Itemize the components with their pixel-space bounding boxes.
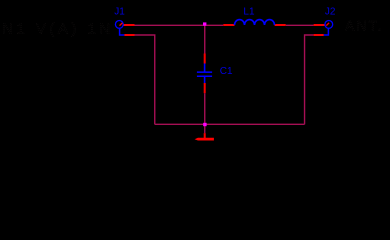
svg-text:ANT.: ANT.	[345, 18, 383, 34]
wire: bottom junction to ground	[204, 124, 206, 133]
pin: J2 pin1 (red stub)	[314, 24, 325, 26]
pin: L1 left pin	[223, 24, 234, 26]
capacitor C1 bottom plate	[197, 76, 212, 78]
pin: C1 top pin	[204, 54, 206, 64]
J2 pin slash	[326, 23, 329, 26]
J1 shield lead (blue L)	[120, 28, 125, 35]
wire: J1 shield net to left corner	[135, 35, 155, 124]
wire: top net junction to L1	[206, 24, 223, 26]
wire: top net L1 to J2	[286, 24, 314, 26]
connector J1 circle	[115, 21, 123, 29]
svg-text:N1 V(A) 1N: N1 V(A) 1N	[2, 20, 114, 37]
junction node bottom (at ground tap)	[203, 123, 206, 126]
pin: C1 bottom pin	[204, 83, 206, 93]
J2 shield lead (blue L)	[324, 28, 329, 35]
capacitor C1 top lead (blue)	[204, 64, 206, 72]
connector J2 circle	[325, 21, 333, 29]
junction node top (at C1 tap)	[203, 22, 206, 25]
wire: right corner up to J2 shield	[305, 35, 314, 124]
wire: bottom net	[155, 123, 305, 125]
svg-text:J2: J2	[325, 7, 336, 18]
svg-text:L1: L1	[243, 7, 255, 18]
svg-text:J1: J1	[114, 7, 125, 18]
pin: J2 shield pin (red stub)	[314, 34, 324, 36]
pin: L1 right pin	[275, 24, 286, 26]
ground symbol bar	[195, 138, 214, 141]
wire: below C1 to bottom junction	[204, 93, 206, 124]
wire: junction down to C1	[204, 25, 206, 53]
J1 pin slash	[120, 23, 123, 26]
pin: J1 pin1 (red stub)	[123, 24, 134, 26]
inductor L1 coil	[235, 20, 275, 25]
pin: J1 shield pin (red stub)	[124, 34, 134, 36]
svg-text:C1: C1	[220, 66, 233, 77]
capacitor C1 top plate	[197, 71, 212, 73]
pin: ground lead (red)	[204, 133, 206, 138]
wire: top net J1 to junction	[135, 24, 204, 26]
capacitor C1 bottom lead (blue)	[204, 77, 206, 83]
